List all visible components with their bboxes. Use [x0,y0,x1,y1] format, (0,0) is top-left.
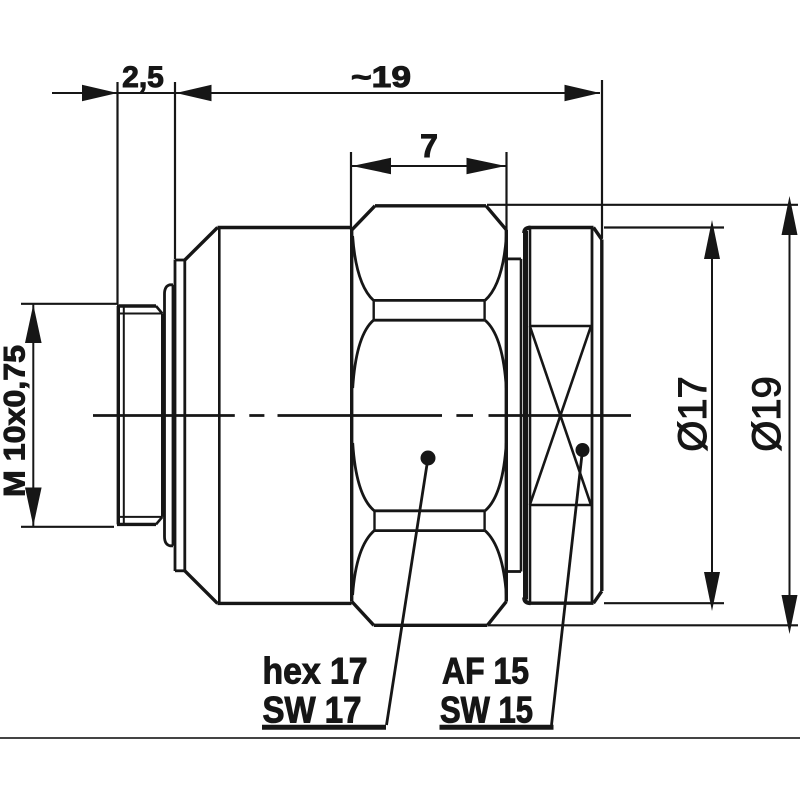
arrowhead ~19 right pointing right [565,85,601,101]
knurl top-left rounded corner [524,228,530,233]
hex facet band lower line1 [374,509,485,512]
thread chamfer bottom right [156,517,162,525]
hex facet band upper left end [373,300,375,320]
knurl inner vertical left [529,229,532,602]
dimension Ø19 [789,205,791,626]
extension line x=602 [601,80,603,238]
dimension 2,5 dim line and ~19 dim line [52,92,600,94]
thread root line bottom [120,516,162,518]
hex facet band upper line1 [374,299,485,302]
thread stub crest top [117,304,156,307]
svg-text:Ø19: Ø19 [745,376,789,452]
knurl bottom edge [529,602,594,605]
knurl chamfer bottom-right [594,591,602,603]
thread root line top [120,313,162,315]
neck top edge [508,257,522,260]
extension line x=351 [350,152,352,230]
hex chamfer top-right [486,206,506,230]
extension line x=117.5 [116,82,118,304]
knurl cross diagonal 1 [530,326,591,505]
extension line y=204.8 from hex [487,204,798,206]
knurl inner vertical right [591,229,594,602]
neck right edge [520,259,523,572]
hex facet band lower right end [483,511,485,531]
arrowhead Ø19 bottom [782,595,798,634]
hex right corner edge [505,230,508,602]
hex facet arc left bottom [353,531,375,595]
knurl right edge [600,240,603,592]
leader dot hex17 [421,451,436,466]
svg-text:SW 17: SW 17 [263,690,362,731]
extension line y=303.8 [21,303,118,305]
disk B left edge [174,260,177,572]
disk B bottom edge [175,569,185,572]
arrowhead M10 bottom [25,488,42,527]
extension line x=175 [174,82,176,259]
underline hex17 [262,725,386,730]
knurl chamfer top-right [594,228,602,240]
thread stub crest bottom [117,523,156,526]
disk B top edge [175,259,185,262]
hex facet arc right bottom [485,531,506,595]
knurl facet line bottom [530,504,591,507]
svg-text:7: 7 [420,128,438,164]
knurl facet line top [530,325,591,328]
leader line hex17 [387,458,429,725]
svg-text:2,5: 2,5 [122,61,164,94]
body bottom edge [218,602,352,605]
svg-text:M 10x0,75: M 10x0,75 [0,345,32,497]
arrowhead 7 left [352,158,391,174]
hex facet arc left top [353,236,374,300]
underline AF15 [440,725,554,730]
hex facet arc right lower-mid [485,443,506,511]
body top edge [218,226,352,229]
svg-text:SW 15: SW 15 [440,690,533,731]
hex facet arc left lower-mid [353,443,375,511]
hex facet arc right upper-mid [485,320,506,388]
body cone chamfer bottom [185,571,218,604]
svg-text:~19: ~19 [351,61,411,94]
hex facet band lower left end [373,511,375,531]
knurl cross diagonal 2 [530,326,591,505]
svg-text:Ø17: Ø17 [671,376,715,452]
leader line AF15 [552,450,583,725]
hex facet band upper line2 [374,319,485,322]
svg-text:hex 17: hex 17 [263,651,368,692]
body cylinder tangent line [218,228,221,604]
arrowhead Ø19 top [782,196,798,235]
extension line y=227.5 right of knurl [604,226,724,228]
thread stub left edge [117,306,120,524]
arrowhead ~19 left pointing left [176,85,212,101]
hex top flat [375,204,486,207]
hex facet band upper right end [483,300,485,320]
neck bottom edge [508,570,522,573]
leader dot AF15 [576,443,590,457]
extension line y=526.8 [21,526,114,528]
arrowhead left outside pointing right at x=117.5 [82,85,118,101]
extension line y=602.9 right of knurl [604,602,724,604]
knurl left edge [523,231,528,600]
dimension 7 [351,165,507,167]
bottom rule [0,737,800,739]
hex chamfer bottom-left [352,602,374,626]
hex facet band lower line2 [374,529,485,532]
disk B right edge [183,260,186,571]
flange A rounded disk [165,285,174,546]
svg-text:AF 15: AF 15 [442,651,529,692]
hex facet arc left upper-mid [353,320,374,388]
thread chamfer top right [156,306,162,314]
arrowhead Ø17 top [704,220,720,259]
dimension Ø17 [711,227,713,605]
knurl top edge [529,226,594,229]
knurl bottom-left rounded corner [524,598,530,604]
hex chamfer top-left [352,206,375,230]
hex chamfer bottom-right [487,602,506,626]
centerline [93,414,631,417]
thread end vertical [161,314,164,517]
hex bottom flat [374,624,488,627]
arrowhead M10 top [25,305,42,344]
thread start chamfer vertical [123,306,125,524]
hex facet arc right top [485,236,506,300]
extension line y=625.3 from hex [488,624,798,626]
extension line x=506.5 [505,152,507,230]
arrowhead 7 right [467,158,506,174]
flange A right edge [172,285,175,546]
arrowhead Ø17 bottom [704,572,720,611]
hex left corner edge [350,230,353,602]
body cone chamfer top [185,228,218,261]
dimension M10x0,75 [32,304,34,527]
